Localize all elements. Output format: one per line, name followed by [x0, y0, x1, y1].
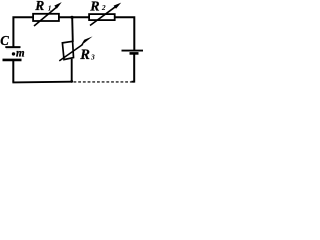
battery long plate (+)	[122, 50, 144, 52]
wire capacitor bottom to bottom wire	[12, 61, 14, 83]
label R2	[89, 0, 106, 14]
svg-text:R: R	[34, 0, 44, 13]
svg-text:R: R	[89, 0, 99, 14]
svg-text:2: 2	[101, 3, 106, 12]
resistor R3 (tilted box)	[62, 41, 73, 59]
bottom wire solid segment	[12, 81, 71, 84]
resistor R2	[89, 14, 115, 20]
arrow (wiper) of R3	[59, 36, 92, 61]
bottom wire dotted segment	[74, 81, 132, 83]
arrow (wiper) of R1	[34, 2, 62, 26]
wire R2 to top-right corner down to battery	[115, 17, 135, 50]
svg-text:R: R	[79, 47, 90, 63]
svg-text:m: m	[16, 46, 25, 60]
label R3	[79, 47, 95, 63]
svg-text:1: 1	[48, 3, 52, 12]
arrow (wiper) of R2	[90, 3, 121, 26]
capacitor C top plate	[5, 46, 20, 48]
wire bottom-right corner up to battery	[133, 54, 135, 83]
svg-text:3: 3	[90, 53, 95, 62]
battery short plate (-)	[130, 52, 139, 55]
junction node between R1 and R2	[70, 16, 73, 19]
wire between R1 and R2	[59, 16, 89, 18]
label R1	[34, 0, 51, 13]
wire junction down to R3	[71, 17, 74, 42]
bottom-right corner stub	[132, 81, 135, 83]
wire R3 bottom to bottom wire	[71, 59, 73, 82]
charged droplet between plates	[12, 52, 15, 55]
wire top-left corner to R1	[13, 17, 33, 47]
svg-text:C: C	[0, 34, 9, 49]
junction node at bottom of R3 branch	[70, 80, 73, 83]
capacitor C bottom plate	[3, 59, 22, 62]
resistor R1	[33, 14, 59, 21]
faint scan smear between plates	[6, 48, 20, 50]
